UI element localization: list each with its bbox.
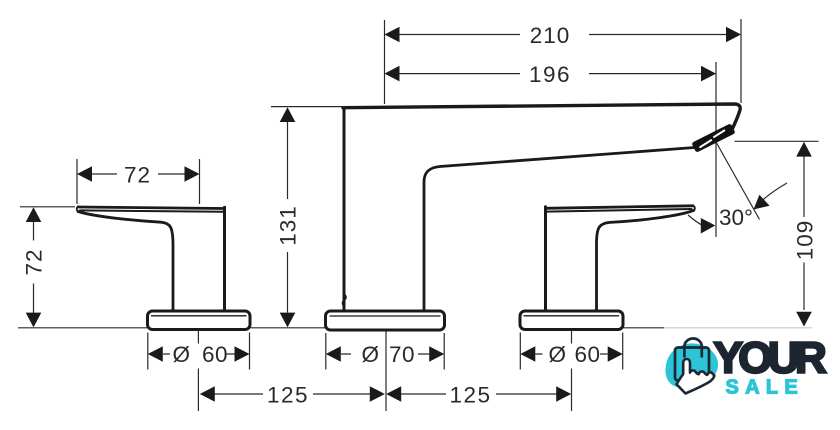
diameter 60 left line stubs xyxy=(163,353,235,355)
left handle centerline xyxy=(197,331,199,412)
svg-text:131: 131 xyxy=(276,205,301,246)
dimension 125 right line xyxy=(400,393,556,395)
svg-text:72: 72 xyxy=(22,248,47,275)
left handle base plate xyxy=(148,311,251,330)
diameter 70 arrowheads xyxy=(326,346,444,362)
dimension 196 line xyxy=(400,73,702,75)
dimension 196 extension line right xyxy=(715,62,717,237)
diameter 70 line stubs xyxy=(341,353,429,355)
diameter 60 right line stubs xyxy=(535,353,607,355)
dimension 196 arrowheads xyxy=(385,66,717,82)
handle tip leader curve xyxy=(688,215,702,225)
left handle right edge xyxy=(223,207,226,310)
dimension 125 left arrowheads xyxy=(200,386,385,402)
svg-text:60: 60 xyxy=(202,342,228,367)
right handle lever top edge xyxy=(546,206,694,209)
dimension 131 arrowheads xyxy=(280,107,296,327)
dimension 131 top extension xyxy=(271,106,343,108)
handle tip leader arrowhead xyxy=(701,218,716,234)
dimension 109 arrowheads xyxy=(796,142,812,327)
svg-text:109: 109 xyxy=(793,220,818,261)
logo hand xyxy=(677,359,715,394)
dimension 125 left line xyxy=(215,393,371,395)
30 degree angle line xyxy=(716,142,760,220)
dimension 72 vertical arrowheads xyxy=(26,207,42,327)
left handle underside xyxy=(78,212,173,311)
left handle base plate inner line xyxy=(152,315,247,317)
svg-text:60: 60 xyxy=(575,342,601,367)
spout top edge and nose xyxy=(343,104,740,129)
logo background panel xyxy=(663,337,829,398)
svg-text:210: 210 xyxy=(530,23,571,48)
logo cyan blob xyxy=(665,343,718,388)
spout base plate inner line xyxy=(330,315,440,317)
svg-text:70: 70 xyxy=(389,342,415,367)
diameter 60 left arrowheads xyxy=(148,346,250,362)
right handle left edge xyxy=(544,207,547,310)
30 degree leader arrowhead xyxy=(754,195,770,210)
dimension 210 line xyxy=(400,34,727,36)
dimension 125 right arrowheads xyxy=(386,386,571,402)
diameter 60 right extension lines xyxy=(520,333,622,370)
30 degree curved leader xyxy=(761,183,787,202)
dimension 72 vertical dim line xyxy=(33,222,35,314)
dimension 210 arrowheads xyxy=(385,27,742,43)
logo shopping bag body xyxy=(675,348,709,381)
right handle base plate xyxy=(520,311,623,330)
right handle base plate inner line xyxy=(524,315,619,317)
right handle lever second line xyxy=(547,209,692,212)
spout underside xyxy=(424,148,695,311)
dimension 72 horizontal arrowheads xyxy=(77,166,200,182)
svg-text:SALE: SALE xyxy=(726,377,805,399)
svg-text:196: 196 xyxy=(529,62,571,87)
deck reference line segments xyxy=(18,327,664,329)
svg-text:YOUR: YOUR xyxy=(714,334,827,383)
right handle tip cap xyxy=(693,206,695,211)
left handle lever top edge xyxy=(78,207,225,209)
deck reference line under logo (faint) xyxy=(664,327,812,329)
right handle centerline xyxy=(571,331,573,412)
right handle underside xyxy=(597,210,694,310)
svg-text:30°: 30° xyxy=(719,205,753,230)
left handle lever second line xyxy=(80,210,223,211)
spout base plate xyxy=(326,311,445,330)
dimension 131 line xyxy=(287,122,289,313)
dimension 72 vertical top extension xyxy=(20,206,75,208)
svg-text:Ø: Ø xyxy=(548,342,566,367)
spout centerline xyxy=(385,331,387,412)
diameter 60 right arrowheads xyxy=(520,346,622,362)
diameter 60 left extension lines xyxy=(148,333,250,370)
dimension 72 horizontal extension lines xyxy=(77,159,200,204)
spout aerator xyxy=(691,123,735,153)
dimension 109 line xyxy=(803,156,805,310)
dimension 72 horizontal line xyxy=(92,173,186,175)
svg-text:Ø: Ø xyxy=(172,342,190,367)
svg-text:Ø: Ø xyxy=(361,342,379,367)
diameter 70 extension lines xyxy=(326,333,444,370)
spout left edge notch xyxy=(342,294,346,307)
spout left edge xyxy=(343,108,346,310)
logo shopping bag handle xyxy=(684,339,701,358)
svg-text:72: 72 xyxy=(124,163,151,188)
svg-text:125: 125 xyxy=(449,383,491,408)
dimension 109 top reference line xyxy=(735,140,819,142)
dimension 210 extension lines xyxy=(385,19,742,104)
svg-text:125: 125 xyxy=(267,383,309,408)
left handle tip cap xyxy=(77,207,78,212)
